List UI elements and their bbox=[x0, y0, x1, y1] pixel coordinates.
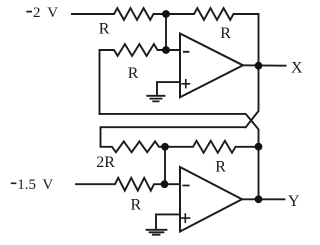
svg-text:R: R bbox=[220, 25, 231, 42]
svg-text:1.5: 1.5 bbox=[17, 177, 36, 193]
svg-text:Y: Y bbox=[288, 193, 300, 210]
svg-text:X: X bbox=[291, 59, 303, 76]
svg-text:R: R bbox=[128, 65, 139, 82]
svg-text:R: R bbox=[99, 20, 110, 37]
svg-text:V: V bbox=[42, 177, 53, 193]
svg-text:V: V bbox=[47, 5, 58, 21]
svg-text:R: R bbox=[131, 196, 142, 213]
svg-text:R: R bbox=[215, 158, 226, 175]
svg-text:2R: 2R bbox=[96, 154, 115, 171]
svg-text:2: 2 bbox=[33, 5, 41, 21]
